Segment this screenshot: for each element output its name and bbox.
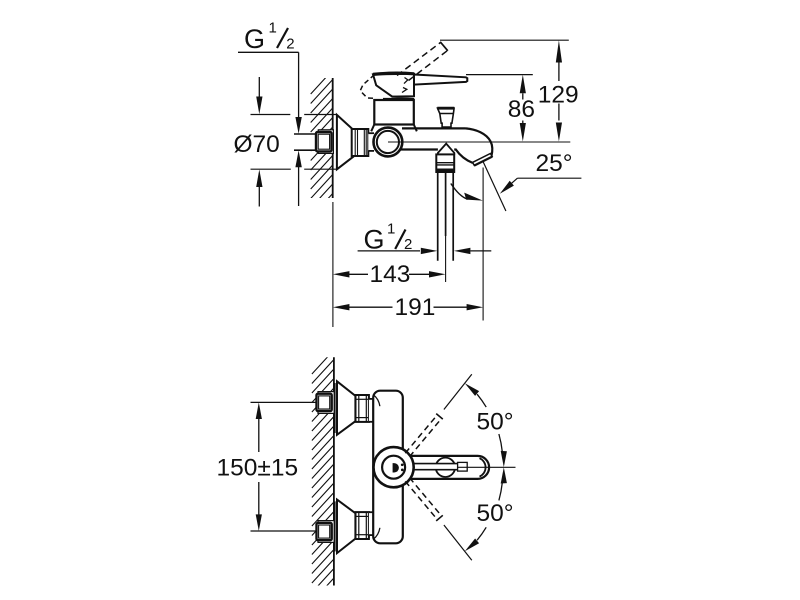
centerline (front view) (388, 141, 570, 143)
svg-text:25°: 25° (536, 150, 573, 177)
lever (top view, stadium shape) (410, 456, 489, 479)
wall face line (lower) (333, 357, 335, 585)
dashed lever lower 50deg (405, 478, 443, 521)
handle cap ghost (dashed alternate position) (360, 75, 375, 99)
neck upper (top view) (369, 399, 374, 422)
svg-text:129: 129 (538, 82, 579, 109)
G 1/2 top leader (238, 52, 302, 206)
svg-text:Ø70: Ø70 (234, 131, 280, 158)
svg-text:191: 191 (395, 294, 436, 321)
flange escutcheon upper (top view) (335, 381, 355, 435)
union nut square fitting (upper) (316, 130, 333, 154)
aerator outlet face (25 deg) (473, 154, 493, 166)
hex nut lower (top view) (356, 512, 369, 539)
diverter knob (top view circle) (436, 458, 455, 477)
cartridge housing (371, 100, 417, 131)
boss arc upper (373, 395, 380, 406)
extension lines below (wall + hose center) (332, 202, 334, 327)
dim 191 (333, 294, 483, 321)
spout inner curve (456, 150, 473, 163)
svg-text:1: 1 (387, 221, 395, 238)
lever handle raised (dashed) (397, 42, 448, 81)
G 1/2 label bottom (364, 221, 413, 255)
valve body circle (boss) (374, 128, 403, 157)
dia70 arrows (256, 77, 262, 207)
dashed lever upper 50deg (405, 414, 443, 457)
svg-text:86: 86 (508, 96, 535, 123)
body tube (horizontal) (390, 128, 466, 149)
shower connector block (436, 154, 454, 172)
logo D mark (393, 463, 399, 472)
dim 129 (538, 40, 579, 141)
G 1/2 bottom leader and arrows (358, 248, 492, 254)
dim 25 deg (500, 150, 582, 194)
shower connector tent (438, 144, 454, 155)
spout outer curve (466, 128, 493, 156)
wall hatching (lower) (312, 350, 334, 600)
lever inner bar (412, 462, 467, 471)
vertical reference / 191 extension line (482, 168, 484, 321)
centerline (top view) (458, 466, 516, 468)
lever end inner arc (480, 458, 486, 476)
union square fitting upper (top view) (317, 392, 335, 414)
faucet body (top view, rounded rect) (373, 391, 403, 544)
extent line lever top (86) (466, 74, 533, 76)
dia70 extent lines (251, 115, 337, 170)
handle cap (lever base) (373, 73, 414, 99)
50deg arc upper (465, 383, 507, 467)
dim 86 (508, 75, 535, 142)
logo dots (401, 463, 404, 466)
svg-text:1: 1 (269, 20, 277, 37)
boss arc lower (373, 528, 380, 539)
hex connection nut (upper) (352, 129, 369, 156)
wall face line (upper) (332, 78, 334, 198)
svg-text:G: G (244, 24, 265, 54)
dome cap (top view circles) (374, 447, 414, 487)
hose swing curved arrow (451, 184, 483, 201)
svg-text:150±15: 150±15 (217, 454, 299, 481)
neck between nut and valve body (368, 133, 374, 151)
lever handle (solid, horizontal) (414, 75, 467, 85)
diverter knob (437, 108, 454, 127)
extension line upper 50deg (444, 374, 472, 409)
neck lower (top view) (369, 512, 374, 535)
G 1/2 label top (244, 20, 295, 55)
dim 143 (333, 261, 446, 288)
50deg arc lower (465, 467, 507, 551)
svg-text:50°: 50° (477, 409, 514, 436)
extension line lower 50deg (444, 525, 472, 560)
flange escutcheon lower (top view) (335, 500, 355, 553)
dim 150+-15 (217, 402, 317, 531)
svg-text:50°: 50° (477, 500, 514, 527)
svg-text:143: 143 (370, 261, 411, 288)
wall flange escutcheon (cone) (337, 115, 354, 169)
shower hose nipple (438, 172, 454, 261)
hex nut upper (top view) (356, 395, 369, 422)
extent line lever raised top (129) (440, 39, 569, 41)
wall hatching (upper) (311, 70, 333, 218)
union square fitting lower (top view) (317, 521, 335, 543)
25 deg reference slant line (483, 161, 506, 211)
svg-text:2: 2 (286, 36, 294, 53)
svg-text:G: G (364, 225, 385, 255)
inlet pipe stub through wall (294, 134, 316, 150)
